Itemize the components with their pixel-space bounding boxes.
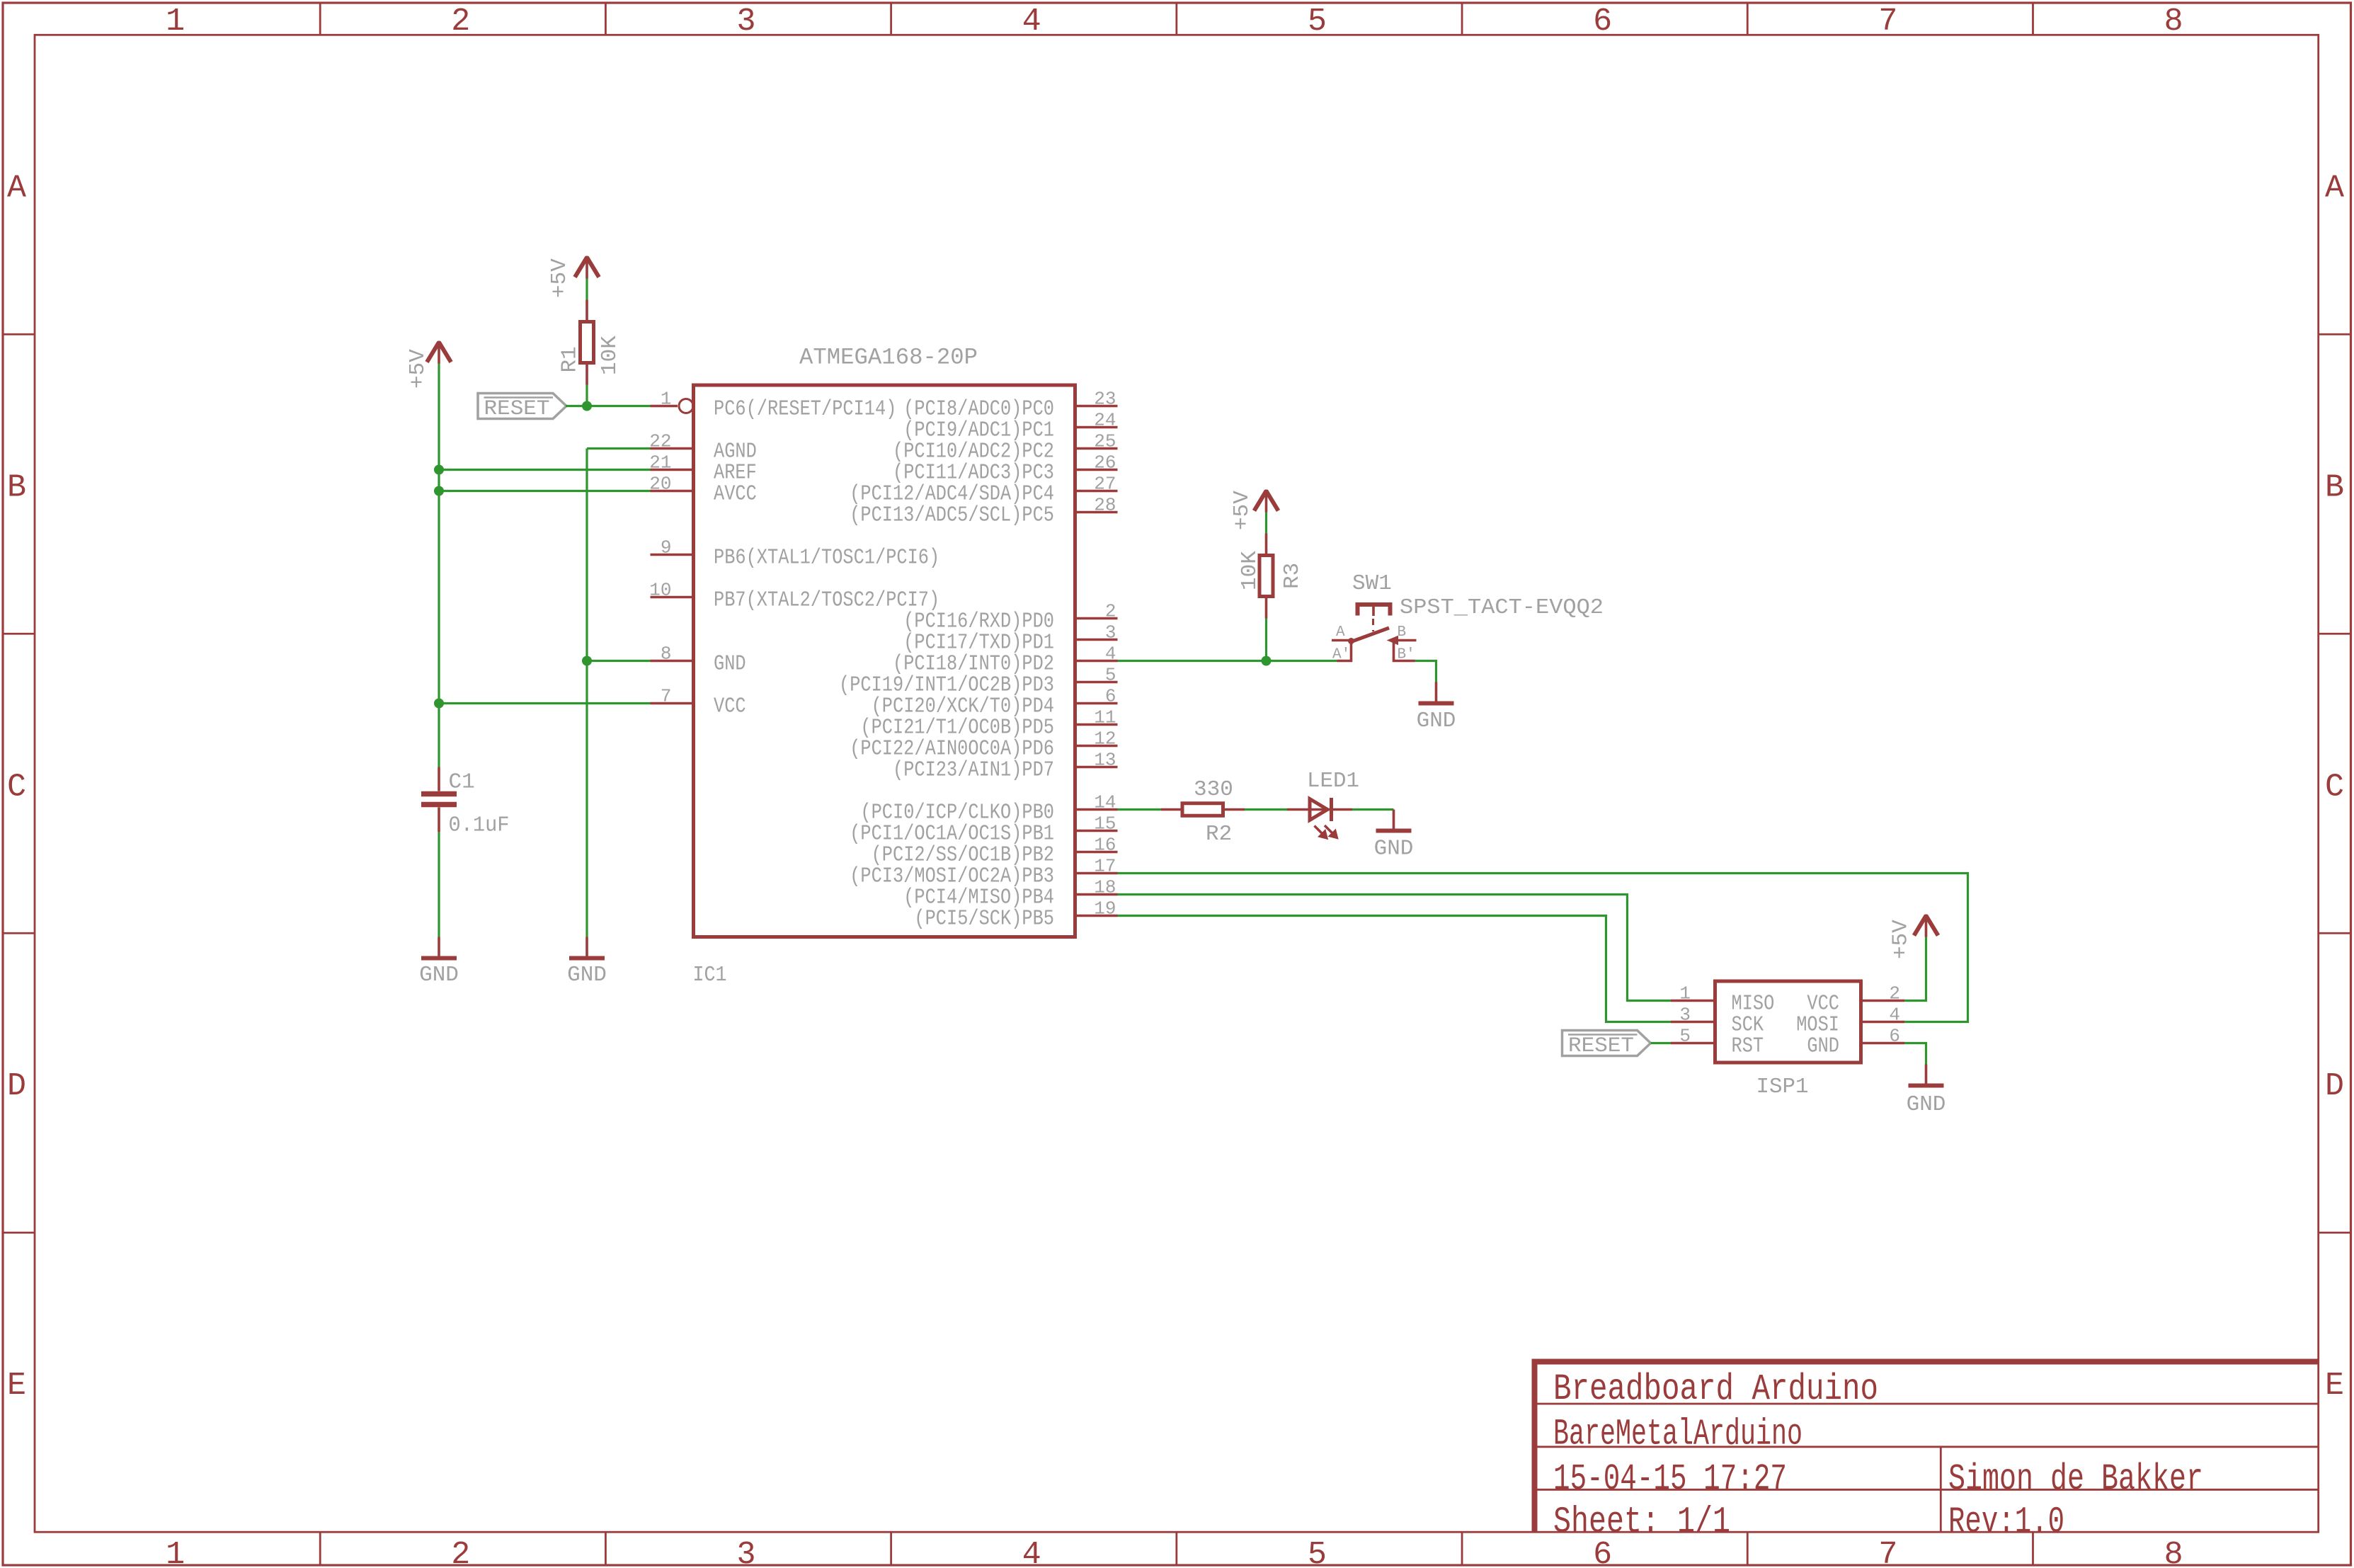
wire SW1 to GND corner [1415,661,1436,682]
date field 15-04-15 17:27 [1553,1458,1787,1500]
svg-text:Breadboard Arduino: Breadboard Arduino [1553,1368,1878,1410]
svg-text:GND: GND [419,963,459,988]
svg-text:D: D [2325,1068,2344,1104]
wire PD2 net (IC pin4 to SW1) [1118,660,1337,662]
svg-text:B: B [7,469,26,505]
svg-text:11: 11 [1094,707,1116,728]
svg-text:C1: C1 [449,770,475,795]
svg-text:R1: R1 [558,346,583,372]
switch SW1 SPST_TACT-EVQQ2 [1332,605,1417,661]
svg-text:27: 27 [1094,474,1116,495]
IC1 pin 26 (PCI11/ADC3)PC3 [893,452,1118,486]
connector ISP1 body [1715,981,1861,1063]
+5V supply symbol (above R1) [547,256,599,299]
svg-text:R2: R2 [1206,822,1232,847]
IC1 pin 10 PB7(XTAL2/TOSC2/PCI7) [649,580,939,613]
svg-text:GND: GND [1374,837,1414,862]
resistor R2 [1161,803,1245,816]
wire GND pin8 [587,660,651,662]
wire R3 to PD2 net [1265,619,1267,661]
R3 value 10K [1238,551,1262,590]
IC1 pin 15 (PCI1/OC1A/OC1S)PB1 [850,813,1117,847]
junction AREF [434,465,444,475]
svg-text:4: 4 [1105,643,1116,665]
wire AREF net [439,469,651,471]
svg-text:GND: GND [1417,709,1456,733]
svg-text:8: 8 [661,643,672,665]
R3 reference label [1280,563,1305,589]
junction RESET node [582,401,592,411]
IC1 pin 8 GND [651,643,746,677]
svg-text:22: 22 [649,431,671,452]
svg-text:17: 17 [1094,856,1116,877]
svg-text:GND: GND [1907,1092,1946,1117]
IC1 pin 25 (PCI10/ADC2)PC2 [893,431,1118,464]
svg-text:SW1: SW1 [1352,571,1392,596]
svg-text:25: 25 [1094,431,1116,452]
wire R2 to LED1 [1245,808,1287,811]
svg-text:7: 7 [661,686,672,707]
IC1 pin 11 (PCI21/T1/OC0B)PD5 [860,707,1117,740]
svg-text:1: 1 [661,389,672,410]
svg-text:24: 24 [1094,410,1116,431]
IC1 pin 24 (PCI9/ADC1)PC1 [903,410,1117,443]
junction VCC [434,699,444,709]
svg-text:C: C [7,769,26,805]
svg-text:12: 12 [1094,728,1116,750]
ground GND (under SW1) [1417,682,1456,734]
svg-text:AVCC: AVCC [714,482,757,507]
SW1 contact label A' [1332,647,1350,663]
title block frame [1532,1359,2319,1533]
svg-text:RST: RST [1732,1034,1764,1059]
svg-text:+5V: +5V [406,349,430,389]
IC1 pin 9 PB6(XTAL1/TOSC1/PCI6) [651,537,940,571]
svg-text:13: 13 [1094,750,1116,771]
SW1 reference label [1352,571,1392,596]
IC1 reference label [693,963,727,988]
svg-text:15: 15 [1094,813,1116,835]
svg-text:330: 330 [1194,777,1233,802]
IC1 pin 18 (PCI4/MISO)PB4 [903,877,1117,910]
svg-text:4: 4 [1022,4,1041,40]
svg-text:9: 9 [661,537,672,559]
IC1 part title ATMEGA168-20P [799,345,978,371]
svg-text:(PCI23/AIN1)PD7: (PCI23/AIN1)PD7 [893,758,1054,783]
IC1 pin 19 (PCI5/SCK)PB5 [914,898,1117,932]
wire ISP VCC to +5V [1904,937,1926,1001]
IC1 pin 1 PC6(/RESET/PCI14) [651,389,897,422]
wire VCC pin7 net [439,702,651,704]
svg-text:10: 10 [649,580,671,601]
svg-text:Simon de Bakker: Simon de Bakker [1948,1458,2203,1500]
svg-text:B: B [1398,624,1407,641]
svg-text:A': A' [1332,647,1350,663]
svg-text:B: B [2325,469,2344,505]
svg-text:LED1: LED1 [1307,769,1359,794]
SW1 contact label B [1398,624,1407,641]
IC1 pin 17 (PCI3/MOSI/OC2A)PB3 [850,856,1117,889]
svg-text:GND: GND [714,652,746,677]
svg-text:5: 5 [1679,1026,1691,1047]
svg-text:+5V: +5V [1889,920,1914,959]
svg-text:1: 1 [166,1537,185,1568]
IC1 pin 2 (PCI16/RXD)PD0 [903,601,1117,634]
IC1 pin 20 AVCC [649,474,757,507]
net label RESET (left flag) [478,394,566,422]
svg-text:15-04-15 17:27: 15-04-15 17:27 [1553,1458,1787,1500]
svg-text:0.1uF: 0.1uF [449,813,510,838]
svg-text:BareMetalArduino: BareMetalArduino [1553,1414,1802,1455]
C1 value 0.1uF [449,813,510,838]
R1 reference label [558,346,583,372]
IC1 pin 7 VCC [651,686,746,719]
R1 value 10K [598,336,622,375]
svg-text:2: 2 [451,4,470,40]
wire LED1 to GND corner [1352,808,1394,811]
svg-text:B': B' [1398,647,1415,663]
svg-text:A: A [1336,624,1345,641]
svg-text:A: A [2325,170,2344,206]
svg-text:4: 4 [1022,1537,1041,1568]
ground GND (center) [567,937,607,988]
resistor R3 [1259,534,1273,619]
SW1 contact label A [1336,624,1345,641]
ground GND (under ISP1) [1907,1065,1946,1118]
svg-text:5: 5 [1308,1537,1327,1568]
svg-text:10K: 10K [598,336,622,375]
IC1 pin 5 (PCI19/INT1/OC2B)PD3 [839,665,1118,698]
svg-text:10K: 10K [1238,551,1262,590]
wire PB0 to R2 [1118,808,1162,811]
R2 reference label [1206,822,1232,847]
svg-text:(PCI13/ADC5/SCL)PC5: (PCI13/ADC5/SCL)PC5 [850,503,1054,528]
svg-text:19: 19 [1094,898,1116,920]
svg-text:14: 14 [1094,792,1116,813]
wire AVCC net [439,490,651,492]
svg-text:IC1: IC1 [693,963,727,988]
svg-text:7: 7 [1878,4,1897,40]
IC1 pin 3 (PCI17/TXD)PD1 [903,622,1117,656]
wire +5V to R3 [1265,513,1267,534]
svg-text:GND: GND [567,963,607,988]
junction GND pin8 [582,656,592,666]
svg-text:E: E [7,1368,26,1404]
svg-text:23: 23 [1094,389,1116,410]
net label RESET (ISP flag) [1562,1031,1651,1059]
IC1 pin 12 (PCI22/AIN0OC0A)PD6 [850,728,1117,762]
svg-text:3: 3 [1679,1005,1691,1026]
wire ISP GND net [1904,1043,1926,1065]
svg-text:28: 28 [1094,495,1116,516]
IC1 pin 22 AGND [649,431,757,464]
svg-text:6: 6 [1889,1026,1900,1047]
svg-text:RESET: RESET [1568,1034,1634,1058]
IC1 pin 6 (PCI20/XCK/T0)PD4 [872,686,1118,719]
wire SCK net (pin19 to ISP pin3) [1118,916,1672,1022]
svg-text:2: 2 [1105,601,1116,622]
capacitor C1 [421,767,457,832]
junction PD2/R3 [1262,656,1272,666]
wire RESET to IC pin1 [587,405,651,407]
svg-text:+5V: +5V [1230,491,1255,530]
svg-text:8: 8 [2164,1537,2183,1568]
title: Breadboard Arduino [1553,1368,1878,1410]
C1 reference label [449,770,475,795]
ISP1 pin 1 MISO [1671,983,1774,1017]
svg-text:7: 7 [1878,1537,1897,1568]
svg-text:3: 3 [737,4,756,40]
svg-text:5: 5 [1105,665,1116,686]
svg-text:2: 2 [1889,983,1900,1005]
svg-text:Sheet: 1/1: Sheet: 1/1 [1553,1501,1730,1543]
IC1 pin 13 (PCI23/AIN1)PD7 [893,750,1118,783]
IC1 pin 23 (PCI8/ADC0)PC0 [903,389,1117,422]
svg-text:16: 16 [1094,835,1116,856]
ISP1 pin 5 RST [1671,1026,1764,1059]
svg-text:+5V: +5V [547,258,572,298]
+5V supply symbol (above R3) [1230,490,1279,531]
frame row letters A-E [7,170,2344,1404]
svg-text:2: 2 [451,1537,470,1568]
SW1 contact label B' [1398,647,1415,663]
IC1 pin 28 (PCI13/ADC5/SCL)PC5 [850,495,1117,528]
ISP1 pin 3 SCK [1671,1005,1764,1038]
svg-text:8: 8 [2164,4,2183,40]
svg-text:VCC: VCC [714,694,746,719]
svg-text:ATMEGA168-20P: ATMEGA168-20P [799,345,978,371]
resistor R1 [581,300,594,385]
wire C1 to GND [438,832,440,937]
LED1 reference label [1307,769,1359,794]
svg-text:SPST_TACT-EVQQ2: SPST_TACT-EVQQ2 [1400,595,1604,620]
IC1 pin 27 (PCI12/ADC4/SDA)PC4 [850,474,1117,507]
svg-text:GND: GND [1807,1034,1839,1059]
ISP1 pin 6 GND [1807,1026,1904,1059]
wire RESET flag to junction [566,405,587,407]
svg-text:(PCI5/SCK)PB5: (PCI5/SCK)PB5 [914,907,1054,932]
wire AGND pin22 [587,447,651,450]
svg-text:ISP1: ISP1 [1756,1075,1809,1099]
revision Rev:1.0 [1948,1501,2064,1543]
svg-text:18: 18 [1094,877,1116,898]
svg-text:5: 5 [1308,4,1327,40]
svg-text:26: 26 [1094,452,1116,474]
junction AVCC [434,486,444,496]
svg-text:21: 21 [649,452,671,474]
wire MISO net (pin18 to ISP pin1) [1118,895,1672,1001]
svg-text:6: 6 [1105,686,1116,707]
svg-text:20: 20 [649,474,671,495]
svg-text:3: 3 [737,1537,756,1568]
wire RESET flag to ISP pin5 [1651,1042,1672,1044]
IC1 pin 14 (PCI0/ICP/CLKO)PB0 [860,792,1117,825]
R2 value 330 [1194,777,1233,802]
author Simon de Bakker [1948,1458,2203,1500]
+5V supply symbol (ISP) [1889,915,1938,960]
svg-text:3: 3 [1105,622,1116,643]
wire R1 to RESET node [585,385,588,406]
wire +5V vertical left rail [438,364,440,767]
subtitle: BareMetalArduino [1553,1414,1802,1455]
sheet field Sheet: 1/1 [1553,1501,1730,1543]
wire MOSI net (pin17 to ISP pin4) [1118,874,1968,1022]
+5V supply symbol (left) [406,341,451,389]
svg-text:RESET: RESET [484,397,550,421]
svg-text:A: A [7,170,26,206]
svg-text:PC6(/RESET/PCI14): PC6(/RESET/PCI14) [714,397,896,422]
svg-text:E: E [2325,1368,2344,1404]
svg-text:R3: R3 [1280,563,1305,589]
IC1 pin 21 AREF [649,452,757,486]
svg-text:6: 6 [1593,4,1612,40]
svg-text:PB6(XTAL1/TOSC1/PCI6): PB6(XTAL1/TOSC1/PCI6) [714,546,939,571]
svg-text:D: D [7,1068,26,1104]
LED LED1 [1287,798,1352,840]
op IC1 ATMEGA168-20P body [694,385,1075,937]
wire +5V to R1 [585,279,588,300]
ISP1 pin 2 VCC [1807,983,1904,1017]
svg-text:Rev:1.0: Rev:1.0 [1948,1501,2064,1543]
svg-text:1: 1 [1679,983,1691,1005]
svg-text:1: 1 [166,4,185,40]
wire AGND vertical rail [585,449,588,937]
ground GND (under LED1) [1374,810,1414,862]
SW1 part name SPST_TACT-EVQQ2 [1400,595,1604,620]
ISP1 reference label [1756,1075,1809,1099]
svg-text:C: C [2325,769,2344,805]
svg-text:4: 4 [1889,1005,1900,1026]
IC1 pin 16 (PCI2/SS/OC1B)PB2 [872,835,1118,868]
ISP1 pin 4 MOSI [1796,1005,1904,1038]
IC1 pin 4 (PCI18/INT0)PD2 [893,643,1118,677]
ground GND (under C1) [419,937,459,988]
